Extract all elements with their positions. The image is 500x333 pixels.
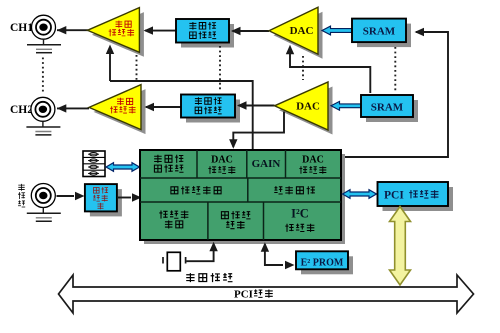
wire crystal to FPGA	[187, 244, 214, 261]
wire amp U3 output to CH2	[57, 107, 89, 109]
block U7 PCI controller	[383, 187, 454, 211]
capacitor-block F2 anti-alias filter 2	[186, 100, 240, 123]
svg-text:E² PROM: E² PROM	[301, 258, 344, 269]
value label ji-zhun-shi-zhong reference clock	[186, 273, 194, 282]
dotted duplication line CH1..CH2	[42, 58, 44, 94]
connector J3 ext trigger BNC	[31, 184, 55, 208]
cell label I2C controller	[285, 207, 314, 232]
svg-text:SRAM: SRAM	[363, 26, 396, 38]
wire DAC2 bottom to DAC-controller(left)	[233, 112, 284, 148]
value label PCI controller	[384, 189, 438, 201]
svg-text:DAC: DAC	[290, 25, 314, 37]
cell label bus logic	[274, 186, 282, 194]
memory M1 SRAM	[357, 24, 411, 47]
FPGA U6 main logic block	[144, 154, 345, 244]
value label F1 kang-hun-die lv-bo-qi	[189, 22, 216, 39]
connector J1 CH1 BNC	[32, 15, 56, 39]
connector J2 CH2 BNC	[31, 97, 55, 121]
bus arrow SRAM2 to DAC2	[331, 101, 361, 110]
value label F2 kang-hun-die lv-bo-qi	[195, 97, 222, 114]
cell label trigger controller	[171, 187, 178, 194]
op-amp U1 programmable amplifier	[92, 12, 144, 57]
ground under CH2	[42, 121, 44, 127]
dotted duplication line F1..F2	[219, 46, 221, 91]
value label U3 cheng-kong fang-da-qi	[110, 98, 135, 114]
svg-text:DAC: DAC	[296, 100, 320, 112]
capacitor-block F1 anti-alias filter 1	[181, 24, 234, 48]
wire DAC2 output to F2	[239, 105, 275, 107]
wire GAIN cell to amplifiers rail	[110, 81, 253, 149]
bus arrow FPGA to PCI controller	[343, 190, 377, 199]
bus arrow SRAM1 to DAC1	[322, 26, 352, 35]
block U5 ext trigger shaper	[90, 189, 122, 216]
svg-text:CH2: CH2	[10, 104, 33, 116]
bus PCI backplane double arrow	[59, 275, 474, 313]
ground under ext trigger	[42, 208, 44, 214]
cell label DAC controller (left)	[208, 155, 235, 174]
wire amp U1 output to CH1	[57, 29, 88, 31]
svg-text:PCI: PCI	[234, 289, 253, 301]
wire trigger shaper to FPGA	[117, 197, 131, 199]
wire gain control arrow into U1 bottom	[109, 48, 111, 81]
svg-text:I²C: I²C	[291, 207, 309, 221]
node ext-trigger label (vertical)	[18, 184, 25, 207]
ground under CH1	[43, 39, 45, 45]
cell label DAC controller (right)	[299, 155, 326, 174]
svg-text:DAC: DAC	[211, 155, 233, 166]
value label PCI bus	[234, 289, 273, 301]
cell label multi-card sync bus	[154, 155, 183, 173]
connector J4 multi-card sync header	[83, 151, 105, 177]
dotted duplication line DAC1..DAC2	[302, 56, 304, 80]
cell label internal clock sync	[159, 210, 188, 228]
svg-text:SRAM: SRAM	[371, 102, 404, 114]
FPGA internal cell grid	[140, 150, 341, 240]
wire DAC-controller(right) to SRAM1	[341, 32, 448, 157]
op-amp U3 programmable amplifier 2	[94, 89, 146, 134]
svg-text:DAC: DAC	[302, 155, 324, 166]
DAC U4 triangle	[279, 87, 333, 135]
wire filter1 to U1	[145, 30, 176, 32]
dotted duplication line SRAM1..SRAM2	[394, 47, 396, 91]
svg-text:GAIN: GAIN	[252, 158, 281, 170]
memory M2 SRAM2	[366, 100, 418, 122]
bus arrow multi-card sync to FPGA	[106, 163, 140, 172]
svg-text:PCI: PCI	[384, 189, 404, 201]
dotted duplication line U1..U3	[136, 55, 138, 81]
wire DAC1 output to F1	[233, 30, 270, 32]
svg-text:CH1: CH1	[10, 22, 33, 34]
wire filter2 to U3	[146, 106, 181, 108]
value label U1 cheng-kong fang-da-qi	[109, 21, 134, 37]
value label U5 wai-chu fa-zheng-xing	[93, 187, 108, 209]
wire J3 to trigger shaper	[57, 195, 75, 197]
bus arrow PCI controller to PCI bus (yellow)	[390, 207, 411, 286]
memory M3 E2PROM	[301, 256, 353, 274]
crystal Y1 reference clock	[162, 257, 164, 264]
wire FPGA to E2PROM	[265, 244, 283, 265]
cell label internal clock unit	[221, 211, 250, 229]
DAC U2 triangle	[274, 12, 323, 59]
wire SRAM2-top to DAC1 bottom (data strobe)	[290, 47, 370, 93]
